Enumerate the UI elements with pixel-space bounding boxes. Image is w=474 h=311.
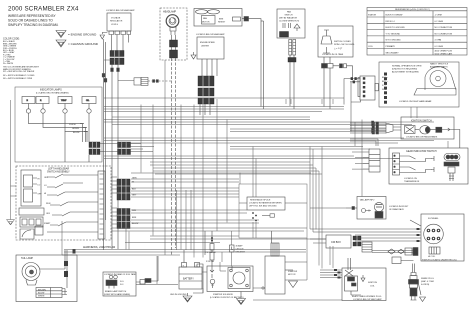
svg-text:BRN: BRN [219, 19, 224, 21]
svg-text:R 4 GAUGE: R 4 GAUGE [205, 251, 217, 254]
svg-text:△ = 1 QT: △ = 1 QT [334, 47, 343, 50]
svg-text:.2 OHM: .2 OHM [435, 15, 442, 17]
svg-text:RESISTANCES (±20% @ 68°F/20°C): RESISTANCES (±20% @ 68°F/20°C) [395, 8, 430, 11]
svg-text:MOTOR: MOTOR [288, 274, 296, 276]
svg-text:Y TO GROUND: Y TO GROUND [386, 33, 401, 35]
svg-text:NC = SWITCH NORMALLY CLOSED: NC = SWITCH NORMALLY CLOSED [3, 74, 35, 77]
svg-text:4 OHM: 4 OHM [435, 40, 442, 42]
svg-text:HEADLAMP: HEADLAMP [163, 11, 177, 14]
svg-text:HARNESS, 2462769-02: HARNESS, 2462769-02 [83, 245, 116, 249]
svg-text:0.3 OHM: 0.3 OHM [435, 46, 444, 48]
svg-text:TRANSMISSION: TRANSMISSION [404, 180, 420, 183]
svg-text:BLK/R TO BRN/W: BLK/R TO BRN/W [386, 15, 403, 17]
svg-text:0.028 IN): 0.028 IN) [421, 284, 430, 286]
svg-text:LOCATED IN FRONT: LOCATED IN FRONT [389, 205, 409, 208]
svg-text:OF REAR RACK: OF REAR RACK [389, 208, 405, 211]
svg-text:RESISTANCE SPLICE: RESISTANCE SPLICE [250, 199, 271, 202]
svg-text:NO CONNECTION: NO CONNECTION [435, 27, 453, 29]
svg-text:CDI BOX: CDI BOX [331, 241, 341, 244]
svg-text:FAN: FAN [287, 11, 291, 14]
svg-text:(UNLESS IT IS REQUIRED): (UNLESS IT IS REQUIRED) [392, 69, 418, 71]
svg-text:R/W: R/W [132, 210, 136, 212]
svg-text:VOLTAGE: VOLTAGE [111, 17, 121, 20]
svg-text:GND IN GROUND: GND IN GROUND [170, 294, 187, 296]
svg-text:NO = SWITCH NORMALLY OPEN: NO = SWITCH NORMALLY OPEN [3, 77, 33, 80]
svg-text:INDICATOR LAMPS: INDICATOR LAMPS [40, 89, 62, 92]
svg-text:BLK: BLK [132, 189, 136, 191]
svg-text:LOCATED IN HARNESS BETWEEN: LOCATED IN HARNESS BETWEEN [249, 202, 282, 205]
svg-text:GRN/W: GRN/W [72, 128, 79, 130]
svg-text:ASSEMBLY PARTS: ASSEMBLY PARTS [430, 66, 448, 69]
svg-text:N.C.: N.C. [120, 284, 124, 286]
svg-text:LIMITER: LIMITER [201, 46, 209, 48]
svg-text:STARTER SOLENOID: STARTER SOLENOID [213, 293, 234, 296]
svg-text:R 18 GA: R 18 GA [206, 260, 214, 263]
svg-text:ENGINE SPEED: ENGINE SPEED [200, 42, 216, 44]
svg-text:= ENGINE GROUND: = ENGINE GROUND [68, 33, 97, 37]
svg-text:REGULATOR: REGULATOR [110, 20, 123, 23]
svg-text:(SET AT RADIATOR: (SET AT RADIATOR [279, 17, 298, 20]
svg-text:MOTOR: MOTOR [202, 22, 210, 24]
svg-text:BRAKE LAMP SWITCH: BRAKE LAMP SWITCH [105, 290, 127, 293]
svg-text:BROWN: BROWN [38, 289, 46, 291]
svg-text:SIMPLIFY TRACING IN DIAGRAM.: SIMPLIFY TRACING IN DIAGRAM. [8, 23, 58, 27]
svg-text:STARTER: STARTER [288, 270, 298, 273]
svg-text:LOCATED IN OIL TANK: LOCATED IN OIL TANK [322, 53, 344, 56]
svg-text:= CHASSIS GROUND: = CHASSIS GROUND [68, 42, 99, 46]
svg-text:FLYWHEEL: FLYWHEEL [428, 218, 440, 220]
svg-text:SOLID OR DASHED LINES TO: SOLID OR DASHED LINES TO [8, 19, 53, 23]
svg-text:STATOR: STATOR [368, 14, 377, 17]
svg-text:COIL: COIL [368, 46, 374, 48]
svg-text:LOCATED ON: LOCATED ON [404, 177, 417, 180]
svg-text:NO CONNECTION: NO CONNECTION [435, 33, 453, 35]
svg-text:LEFT H.B. SW. AND GROUND: LEFT H.B. SW. AND GROUND [249, 205, 277, 208]
svg-text:(LOCATED BELOW HANDLEBARS): (LOCATED BELOW HANDLEBARS) [36, 92, 69, 95]
svg-text:WHITE: WHITE [38, 296, 45, 298]
svg-text:START: START [44, 222, 51, 225]
svg-text:R/Y = RED WITH YELLOW TRACER: R/Y = RED WITH YELLOW TRACER [3, 70, 35, 73]
svg-text:GRN: GRN [132, 178, 137, 180]
svg-text:PRIMARY: PRIMARY [386, 45, 396, 48]
svg-text:RUN: RUN [46, 203, 51, 205]
svg-text:SPARK PLUG: SPARK PLUG [421, 277, 434, 280]
svg-text:SWITCH: SWITCH [285, 15, 293, 17]
svg-text:COLOR CODE:: COLOR CODE: [3, 38, 20, 41]
svg-text:WITH LOW OIL LEVEL: WITH LOW OIL LEVEL [334, 44, 356, 46]
svg-text:GRY: GRY [132, 195, 137, 197]
svg-text:BRN: BRN [132, 217, 137, 219]
svg-text:SECONDARY: SECONDARY [386, 51, 400, 54]
svg-text:BLK/W: BLK/W [38, 293, 44, 295]
svg-text:CLOSES WHEN HOT): CLOSES WHEN HOT) [279, 21, 300, 23]
svg-text:30 AMP: 30 AMP [236, 245, 244, 248]
svg-text:NORMAL OPERATION IS OPEN: NORMAL OPERATION IS OPEN [392, 65, 422, 68]
svg-text:FAN: FAN [203, 17, 207, 20]
svg-text:R/R NO 4: R/R NO 4 [386, 21, 396, 23]
svg-text:(USED WITH HAND BRAKE): (USED WITH HAND BRAKE) [104, 293, 130, 296]
svg-text:TAIL LAMP: TAIL LAMP [21, 257, 33, 260]
svg-text:GEAR INDICATOR SWITCH: GEAR INDICATOR SWITCH [406, 150, 437, 153]
svg-text:BLACK CABLE W/SPARK PLUG: BLACK CABLE W/SPARK PLUG [352, 295, 382, 298]
svg-text:LOCATED BELOW HEADLAMP: LOCATED BELOW HEADLAMP [196, 33, 225, 36]
svg-text:W TO GROUND: W TO GROUND [386, 40, 402, 42]
svg-text:LR W G: LR W G [111, 24, 119, 26]
svg-text:WIRES ARE REPRESENTED BY: WIRES ARE REPRESENTED BY [8, 14, 57, 18]
svg-text:W: W [132, 182, 134, 184]
svg-text:HI COIL: HI COIL [428, 256, 436, 258]
svg-text:LOCATED BELOW HANDLEBARS: LOCATED BELOW HANDLEBARS [406, 136, 438, 139]
svg-text:4050 OHMS PLUS: 4050 OHMS PLUS [435, 50, 453, 52]
svg-text:N.O.: N.O. [120, 281, 125, 283]
svg-text:BLK/W: BLK/W [132, 223, 138, 225]
svg-text:0.2 OHM: 0.2 OHM [435, 21, 444, 23]
svg-text:BLK/R TO GROUND: BLK/R TO GROUND [386, 27, 406, 29]
svg-text:TEMP: TEMP [61, 100, 67, 102]
svg-text:PUR/W: PUR/W [69, 124, 76, 126]
svg-text:RESIST: RESIST [218, 22, 226, 24]
svg-text:IGNITION: IGNITION [368, 282, 377, 284]
svg-text:LOCATED BELOW SEAT LAMP: LOCATED BELOW SEAT LAMP [353, 298, 382, 301]
svg-text:ADJUSTMENT IS REQUIRED: ADJUSTMENT IS REQUIRED [392, 71, 420, 74]
svg-text:SWITCH CLOSES: SWITCH CLOSES [334, 41, 351, 43]
svg-text:5050 OHMS (CAP): 5050 OHMS (CAP) [435, 52, 453, 55]
svg-text:LO: LO [44, 185, 47, 187]
svg-text:LOCATED BELOW HEADLAMP: LOCATED BELOW HEADLAMP [106, 9, 135, 12]
svg-text:HANDY THROTTLE: HANDY THROTTLE [430, 63, 449, 66]
svg-text:BATTERY: BATTERY [183, 278, 194, 281]
svg-text:2000 SCRAMBLER ZX4: 2000 SCRAMBLER ZX4 [8, 6, 79, 13]
svg-text:W = WHITE: W = WHITE [3, 63, 14, 65]
svg-text:LO: LO [38, 185, 41, 187]
svg-text:LOCATED ON RIGHT HANDLEBAR: LOCATED ON RIGHT HANDLEBAR [399, 100, 432, 103]
svg-text:BLU/W: BLU/W [73, 132, 79, 134]
svg-text:TAILLAMP INFO: TAILLAMP INFO [360, 199, 375, 202]
svg-text:(GAP: 0.7 MM: (GAP: 0.7 MM [421, 280, 434, 283]
svg-text:SWITCH ASSEMBLY: SWITCH ASSEMBLY [47, 171, 70, 174]
svg-text:LOCATED IN REAR OF FOG TANK: LOCATED IN REAR OF FOG TANK [104, 273, 137, 276]
svg-text:STATOR (LOCATED UNDER RECOIL): STATOR (LOCATED UNDER RECOIL) [422, 259, 457, 262]
